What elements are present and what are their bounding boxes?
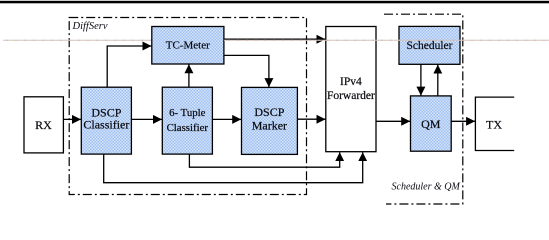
svg-text:DSCP: DSCP — [254, 105, 284, 119]
svg-text:RX: RX — [35, 118, 52, 132]
svg-text:Forwarder: Forwarder — [327, 90, 375, 102]
svg-text:TC-Meter: TC-Meter — [166, 39, 210, 51]
svg-text:TX: TX — [486, 118, 502, 132]
svg-text:IPv4: IPv4 — [340, 76, 362, 88]
svg-text:Scheduler & QM: Scheduler & QM — [392, 182, 461, 193]
svg-text:Classifier: Classifier — [83, 118, 129, 132]
svg-text:DiffServ: DiffServ — [72, 21, 108, 32]
svg-text:Marker: Marker — [252, 119, 287, 133]
svg-text:Scheduler: Scheduler — [407, 40, 453, 52]
svg-text:Classifier: Classifier — [167, 122, 209, 134]
svg-text:6- Tuple: 6- Tuple — [169, 107, 206, 119]
svg-text:QM: QM — [421, 117, 441, 131]
